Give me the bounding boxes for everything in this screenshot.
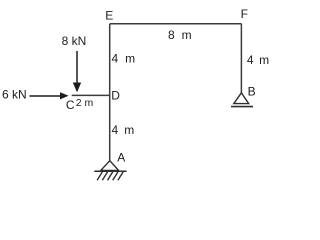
support B (roller)	[231, 93, 253, 107]
svg-text:D: D	[111, 89, 120, 103]
member E-D-A (left column)	[109, 24, 111, 162]
svg-text:6 kN: 6 kN	[2, 87, 27, 101]
svg-text:F: F	[241, 7, 248, 21]
svg-text:A: A	[117, 150, 125, 164]
svg-text:2 m: 2 m	[76, 97, 94, 109]
svg-text:4 m: 4 m	[247, 53, 270, 67]
member C-D (cantilever, 2 m)	[72, 94, 110, 96]
svg-text:B: B	[248, 84, 256, 98]
svg-text:C: C	[66, 98, 75, 112]
member F-B (right column)	[240, 24, 242, 93]
load arrow 6 kN (rightward at C)	[30, 92, 69, 99]
svg-text:E: E	[105, 9, 113, 23]
svg-text:4 m: 4 m	[112, 52, 137, 66]
load arrow 8 kN (downward at C)	[73, 51, 81, 92]
svg-text:8 m: 8 m	[168, 28, 193, 42]
support A (pinned, hatched ground)	[94, 161, 126, 181]
member EF (top beam, 8 m)	[110, 23, 242, 25]
svg-text:8 kN: 8 kN	[62, 34, 87, 48]
svg-text:4 m: 4 m	[112, 123, 136, 137]
